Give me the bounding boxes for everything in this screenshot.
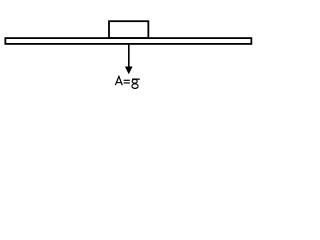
arrowhead xyxy=(125,67,133,75)
arrow shaft (acceleration) xyxy=(128,45,130,69)
block (mass) on top of bar xyxy=(109,21,148,38)
letter g (double-storey) xyxy=(132,78,139,81)
label A=g xyxy=(115,76,139,88)
equals sign xyxy=(124,79,130,81)
bar (plank) xyxy=(5,38,251,44)
letter A xyxy=(115,76,122,85)
